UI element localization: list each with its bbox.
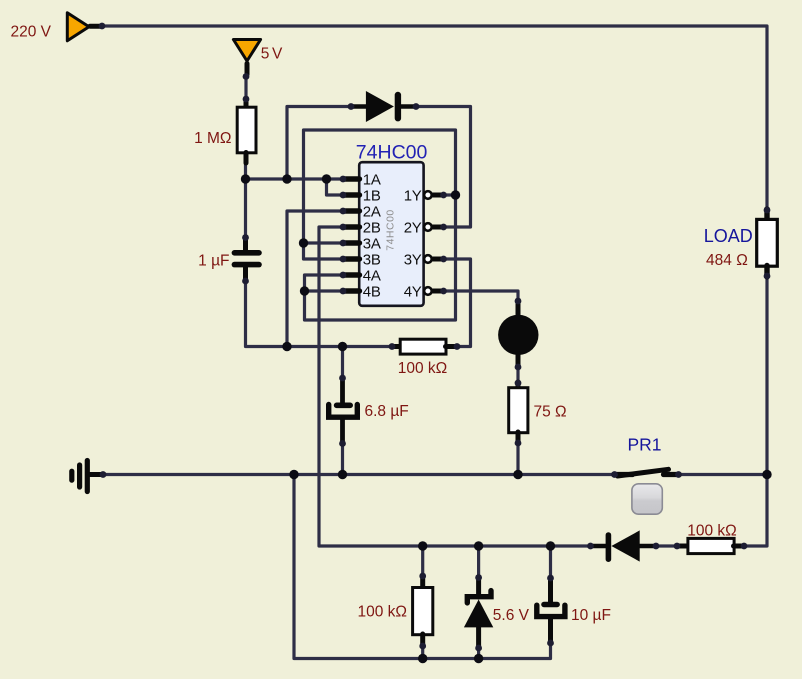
svg-text:2Y: 2Y xyxy=(404,219,422,236)
node switch LOAD junction xyxy=(762,470,771,479)
node 1Y junction xyxy=(451,190,460,199)
U1 right pin stubs xyxy=(433,195,445,291)
node 6.8uF ground junction xyxy=(338,470,347,479)
ground symbol bar large xyxy=(85,461,90,492)
resistor R1 1M bottom stub xyxy=(244,153,249,164)
resistor R2 bottom stub xyxy=(516,432,521,444)
voltage source V1 pin stub xyxy=(90,24,101,29)
capacitor C1 plate top xyxy=(234,250,259,256)
capacitor C3 bottom stub xyxy=(548,619,553,643)
wire 10uF top xyxy=(549,546,552,578)
svg-text:100 kΩ: 100 kΩ xyxy=(398,360,448,377)
svg-text:3A: 3A xyxy=(363,235,381,252)
ground symbol stub xyxy=(89,472,103,477)
svg-text:6.8 µF: 6.8 µF xyxy=(365,403,409,420)
resistor R3 right stub xyxy=(446,344,458,349)
node 10uF top xyxy=(546,541,555,550)
voltage source V2 5V triangle xyxy=(233,40,260,62)
U1 output circles xyxy=(424,191,432,295)
diode D2 left stub xyxy=(591,544,607,549)
capacitor C2 6.8uF top stub xyxy=(340,378,345,404)
svg-text:3Y: 3Y xyxy=(404,251,422,268)
wire 2B down to bottom rail xyxy=(319,227,591,546)
LED L1 body xyxy=(498,315,538,355)
capacitor C3 10uF top stub xyxy=(548,578,553,604)
zener D3 triangle xyxy=(464,600,493,628)
diode D2 cathode bar xyxy=(606,535,612,559)
LED L1 top stub xyxy=(516,301,521,317)
node 100k vert top xyxy=(418,541,427,550)
node 1A-1B tie xyxy=(322,174,331,183)
wire top rail from 220V source to LOAD resistor xyxy=(102,26,767,210)
wire 5V to 1MOhm xyxy=(244,77,247,100)
node zener bottom xyxy=(474,654,483,663)
svg-text:4B: 4B xyxy=(363,283,381,300)
resistor LOAD top stub xyxy=(764,209,769,220)
resistor R5 100k bottom body xyxy=(688,538,734,553)
svg-text:74HC00: 74HC00 xyxy=(356,141,428,163)
resistor R4 bottom stub xyxy=(420,634,425,647)
wire switch right pin to node xyxy=(679,473,768,476)
resistor R4 100k vertical top stub xyxy=(420,576,425,589)
U1 pin labels xyxy=(363,171,422,300)
node 3A junction xyxy=(299,238,308,247)
capacitor C1 plate bottom xyxy=(234,262,259,268)
wire 1Y up over to 3B xyxy=(304,130,456,259)
switch PR1 left stub xyxy=(615,472,633,477)
wire 1MOhm bottom to 1A row xyxy=(246,162,344,179)
svg-text:5 V: 5 V xyxy=(261,45,283,62)
svg-text:220 V: 220 V xyxy=(11,23,52,40)
wire 6.8uF bottom to ground row xyxy=(341,444,344,475)
svg-text:1A: 1A xyxy=(363,171,381,188)
svg-text:484 Ω: 484 Ω xyxy=(706,252,748,269)
voltage source V2 pin stub xyxy=(245,64,250,75)
voltage source V1 220V triangle xyxy=(67,13,89,41)
U1 left pin stubs xyxy=(344,179,360,291)
wire 2A down to mid row xyxy=(287,211,343,347)
zener D3 bottom stub xyxy=(476,627,481,648)
wire 1Y output stub xyxy=(444,193,456,196)
svg-text:PR1: PR1 xyxy=(628,434,662,454)
capacitor C3 cup xyxy=(537,605,565,616)
switch PR1 lever xyxy=(618,469,669,476)
svg-text:3B: 3B xyxy=(363,251,381,268)
node 2A mid row junction xyxy=(282,342,291,351)
wire 100k vertical top xyxy=(421,546,424,576)
wire diode D1 left side down to 1A node xyxy=(287,107,351,180)
resistor R1 1M body xyxy=(237,107,256,153)
diode D2 right stub xyxy=(640,544,656,549)
switch PR1 button xyxy=(632,484,662,514)
svg-text:1 µF: 1 µF xyxy=(198,253,229,270)
capacitor C3 top plate xyxy=(544,602,557,607)
node 1MOhm-1uF-1A junction xyxy=(241,174,250,183)
wire LED to 75 ohm xyxy=(516,367,519,383)
resistor R2 75 ohm top stub xyxy=(516,382,521,389)
diode D2 triangle xyxy=(611,530,639,561)
wire end caps xyxy=(99,23,771,652)
svg-text:100 kΩ: 100 kΩ xyxy=(687,522,737,539)
wire 75 ohm to ground row xyxy=(516,443,519,475)
svg-text:75 Ω: 75 Ω xyxy=(534,404,567,421)
svg-text:74HC00: 74HC00 xyxy=(385,209,397,251)
wire bottom loop xyxy=(294,475,551,659)
diode D1 right stub xyxy=(401,104,416,109)
wire 1uF top xyxy=(244,179,247,238)
svg-text:2B: 2B xyxy=(363,219,381,236)
resistor R1 1M top stub xyxy=(244,99,249,109)
node ground row bottom loop xyxy=(289,470,298,479)
diode D1 cathode bar xyxy=(395,95,401,118)
node diode D1 left to 1A row xyxy=(282,174,291,183)
wire 100k vertical bottom xyxy=(421,646,424,659)
svg-text:5.6 V: 5.6 V xyxy=(493,607,530,624)
svg-text:1 MΩ: 1 MΩ xyxy=(194,130,231,147)
LED L1 bottom stub xyxy=(516,353,521,367)
resistor R3 100k mid body xyxy=(400,339,446,354)
wire 6.8uF top xyxy=(341,347,344,379)
op-amp U1 74HC00 body xyxy=(359,162,423,306)
wire 3A spur xyxy=(304,241,344,244)
resistor R3 100k mid left stub xyxy=(392,344,401,349)
node 75ohm ground junction xyxy=(513,470,522,479)
diode D1 left stub xyxy=(351,104,366,109)
wire diode D2 to 100k bottom resistor xyxy=(656,544,677,547)
ground symbol bar small xyxy=(69,471,74,480)
wire 1B tie xyxy=(327,179,344,195)
svg-text:1B: 1B xyxy=(363,187,381,204)
wire 4Y to LED xyxy=(444,291,519,301)
wire zener top xyxy=(477,546,480,578)
wire ground row xyxy=(103,473,615,476)
resistor R5 right stub xyxy=(734,544,745,549)
switch PR1 right stub xyxy=(664,472,679,477)
resistor R4 100k vertical body xyxy=(413,588,433,635)
node 4B junction xyxy=(300,286,309,295)
zener D3 top stub xyxy=(476,578,481,598)
capacitor C2 cup xyxy=(329,405,358,418)
capacitor C2 bottom stub xyxy=(340,420,345,444)
zener D3 cathode bar xyxy=(467,591,491,603)
svg-text:4A: 4A xyxy=(363,267,381,284)
wire diode D1 right side down to 2Y xyxy=(416,107,471,228)
ground symbol bar mid xyxy=(77,465,82,487)
capacitor C2 top plate xyxy=(337,402,351,408)
wire 1Y down over to 4A xyxy=(305,195,456,320)
node zener top xyxy=(474,541,483,550)
resistor LOAD bottom stub xyxy=(764,266,769,278)
wire mid row right up to 3Y xyxy=(444,259,471,347)
wire LOAD bottom down through switch node to 100k R right xyxy=(744,276,767,546)
svg-text:1Y: 1Y xyxy=(404,187,422,204)
resistor R5 100k bottom left stub xyxy=(677,544,689,549)
capacitor C1 bottom stub xyxy=(243,267,248,282)
diode D1 triangle xyxy=(366,91,394,122)
wire 4B spur xyxy=(305,289,344,292)
svg-text:4Y: 4Y xyxy=(404,283,422,300)
wire zener bottom xyxy=(477,648,480,659)
wire 1uF bottom along mid row xyxy=(246,281,393,347)
svg-text:100 kΩ: 100 kΩ xyxy=(357,604,407,621)
resistor LOAD body xyxy=(757,219,778,266)
node 6.8uF top junction xyxy=(338,342,347,351)
resistor R2 75 ohm body xyxy=(509,388,528,433)
svg-text:2A: 2A xyxy=(363,203,381,220)
svg-text:10 µF: 10 µF xyxy=(571,607,611,624)
node 100k vert bottom xyxy=(418,654,427,663)
svg-text:LOAD: LOAD xyxy=(704,226,753,246)
capacitor C1 1uF top stub xyxy=(243,237,248,251)
